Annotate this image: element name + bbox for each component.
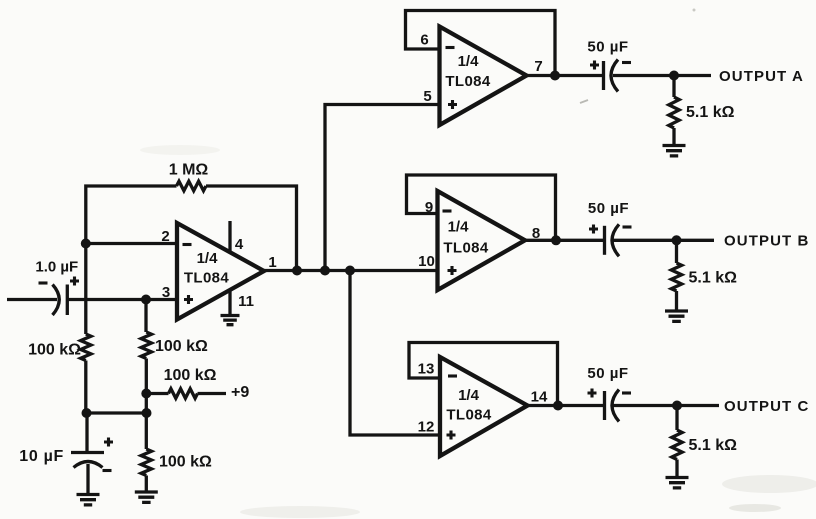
wire cap to pin 3 — [67, 298, 177, 301]
pin 4 stub — [228, 221, 231, 252]
svg-text:+9: +9 — [231, 384, 249, 401]
node output B — [672, 235, 682, 245]
svg-text:100 kΩ: 100 kΩ — [155, 338, 208, 355]
wire U1c feedback — [407, 175, 556, 240]
svg-text:OUTPUT C: OUTPUT C — [724, 398, 809, 415]
svg-text:TL084: TL084 — [446, 407, 492, 424]
svg-text:11: 11 — [238, 293, 254, 310]
plus U1a — [184, 295, 193, 304]
ground under C2 — [77, 495, 100, 505]
svg-text:1: 1 — [268, 254, 276, 271]
wire C4 to node — [613, 239, 677, 242]
svg-text:1 MΩ: 1 MΩ — [169, 162, 209, 179]
wire node to R5 — [145, 413, 148, 449]
resistor R2 1 MΩ — [177, 181, 207, 191]
scan speck 1 — [580, 100, 588, 103]
wire branch to pin 12 — [350, 271, 440, 436]
svg-text:1.0 µF: 1.0 µF — [35, 259, 78, 276]
node U1c output — [551, 235, 561, 245]
svg-text:2: 2 — [161, 228, 169, 245]
ground under R5 — [135, 492, 158, 502]
wire node to R8 — [675, 406, 678, 431]
svg-text:50 µF: 50 µF — [588, 200, 629, 217]
wire feedback left vertical — [86, 186, 177, 244]
scan speck 3 — [729, 504, 781, 512]
svg-text:1/4: 1/4 — [197, 250, 219, 267]
svg-text:1/4: 1/4 — [458, 53, 480, 70]
node inverting input — [81, 239, 91, 249]
wire U1b output — [527, 74, 604, 77]
op-amp U1a triangle — [177, 223, 264, 320]
pin 11 stub — [228, 289, 231, 315]
wire C3 to node — [613, 74, 674, 77]
plus U1d — [447, 431, 456, 440]
resistor R1 100 kΩ — [81, 334, 91, 361]
capacitor C4 50 µF — [603, 226, 606, 255]
wire R1 to bottom node — [84, 361, 87, 414]
minus U1c — [443, 209, 452, 212]
node output A — [669, 71, 679, 81]
wire R6 to ground — [672, 128, 675, 145]
svg-text:1/4: 1/4 — [448, 219, 470, 236]
wire U1c output — [525, 239, 604, 242]
svg-text:OUTPUT A: OUTPUT A — [719, 68, 804, 85]
scan smudge 2 — [240, 506, 360, 518]
svg-text:10: 10 — [418, 253, 435, 270]
scan smudge 3 — [140, 145, 220, 155]
ground pin 11 — [221, 316, 240, 325]
resistor R7 5.1 kΩ — [671, 263, 681, 291]
wire pin 2 — [86, 242, 177, 245]
wire node to R7 — [675, 240, 678, 263]
op-amp U1d triangle — [440, 357, 528, 456]
ground output A — [663, 146, 686, 156]
svg-text:50 µF: 50 µF — [587, 365, 628, 382]
wire node to C2 — [85, 413, 88, 452]
wire C5 to node — [613, 404, 677, 407]
op-amp U1c triangle — [438, 191, 526, 290]
wire pin3 bias vertical — [144, 300, 147, 333]
capacitor C3 50 µF — [602, 61, 605, 90]
svg-text:10 µF: 10 µF — [19, 448, 64, 465]
svg-text:5.1 kΩ: 5.1 kΩ — [689, 437, 738, 454]
capacitor C1 1.0 µF — [53, 285, 60, 316]
wire R5 to ground — [145, 476, 148, 492]
svg-text:5: 5 — [423, 88, 431, 105]
ground output B — [665, 311, 688, 321]
node bias junction — [142, 408, 152, 418]
svg-text:4: 4 — [235, 236, 244, 253]
node pin3 junction — [141, 295, 151, 305]
node output C — [672, 401, 682, 411]
op-amp U1b triangle — [440, 27, 527, 126]
minus U1b — [446, 46, 455, 49]
wire R8 to ground — [675, 460, 678, 477]
minus U1a — [183, 243, 192, 246]
wire U1a output bus — [264, 269, 438, 272]
svg-text:3: 3 — [162, 284, 170, 301]
resistor R8 5.1 kΩ — [672, 430, 682, 460]
wire bias left vertical — [84, 244, 87, 335]
svg-text:TL084: TL084 — [445, 73, 491, 90]
plus U1b — [448, 100, 457, 109]
svg-text:1/4: 1/4 — [458, 387, 480, 404]
svg-text:TL084: TL084 — [443, 240, 489, 257]
node feedback tap — [292, 266, 302, 276]
wire U1d feedback — [409, 343, 558, 406]
svg-text:6: 6 — [420, 32, 428, 49]
wire branch to pin 5 — [325, 105, 440, 271]
plus U1c — [448, 266, 457, 275]
svg-text:100 kΩ: 100 kΩ — [28, 342, 81, 359]
ground output C — [666, 478, 689, 488]
resistor R6 5.1 kΩ — [669, 97, 679, 128]
svg-text:TL084: TL084 — [184, 270, 230, 287]
wire R7 to ground — [675, 291, 678, 311]
wire to R4 — [146, 392, 168, 395]
node U1d output — [553, 401, 563, 411]
svg-text:12: 12 — [418, 419, 435, 436]
node supply branch — [141, 389, 151, 399]
svg-text:7: 7 — [534, 58, 542, 75]
svg-text:OUTPUT B: OUTPUT B — [724, 233, 809, 250]
wire U1d output — [528, 404, 605, 407]
minus U1d — [448, 374, 457, 377]
scan smudge 1 — [722, 475, 816, 493]
wire to OUTPUT C — [677, 404, 719, 407]
svg-text:100 kΩ: 100 kΩ — [164, 367, 217, 384]
wire C2 to ground — [86, 464, 89, 494]
wire feedback top right — [206, 186, 297, 271]
svg-text:14: 14 — [531, 389, 548, 406]
svg-text:9: 9 — [425, 199, 433, 216]
wire bottom horizontal — [87, 411, 147, 414]
resistor R3 100 kΩ — [141, 332, 151, 359]
node bottom left — [82, 408, 92, 418]
wire R4 to +9 — [198, 392, 227, 395]
svg-text:13: 13 — [418, 361, 435, 378]
scan speck 2 — [693, 9, 696, 12]
wire to OUTPUT A — [674, 74, 711, 77]
svg-text:5.1 kΩ: 5.1 kΩ — [686, 104, 735, 121]
capacitor C5 50 µF — [603, 391, 606, 420]
resistor R4 100 kΩ — [169, 389, 198, 399]
wire U1b feedback — [406, 11, 556, 76]
svg-text:50 µF: 50 µF — [587, 39, 628, 56]
resistor R5 100 kΩ — [141, 449, 151, 476]
wire input line — [7, 298, 57, 301]
svg-text:100 kΩ: 100 kΩ — [159, 454, 212, 471]
wire R3 down — [145, 359, 148, 414]
wire node to R6 — [672, 76, 675, 98]
svg-text:5.1 kΩ: 5.1 kΩ — [689, 270, 738, 287]
capacitor C2 10 µF — [71, 451, 104, 454]
node U1b output — [550, 71, 560, 81]
wire to OUTPUT B — [677, 239, 715, 242]
node branch down — [345, 266, 355, 276]
node branch up — [320, 266, 330, 276]
